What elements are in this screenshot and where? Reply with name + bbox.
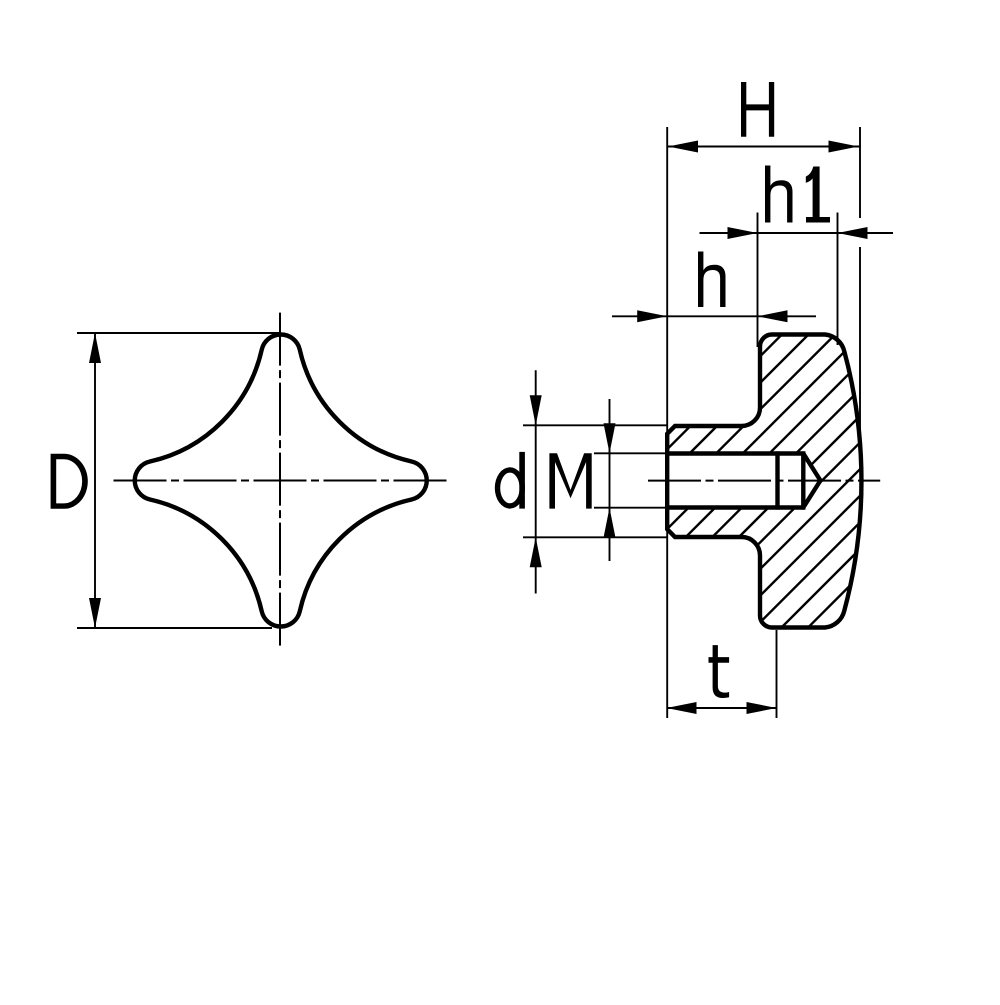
dimension H line with arrows bbox=[667, 141, 860, 153]
label H bbox=[741, 82, 774, 137]
dimension M extension line top bbox=[594, 452, 667, 454]
thread depth line bbox=[775, 451, 779, 509]
dimension d extension line top bbox=[523, 424, 667, 426]
dimension h1 line with outside arrows bbox=[700, 227, 894, 239]
dimension h line with outside arrows bbox=[612, 310, 816, 322]
dimension H right extension line bbox=[859, 127, 861, 445]
dimension D line with arrows bbox=[89, 333, 101, 628]
dimension t right extension line bbox=[776, 630, 778, 718]
section hatching bbox=[67, 320, 1000, 650]
cross knob front outline bbox=[135, 335, 427, 627]
knob section outline bbox=[667, 335, 861, 628]
dimension M line with outside arrows bbox=[604, 399, 616, 561]
side view centerline bbox=[648, 480, 880, 482]
label h1 bbox=[765, 166, 830, 223]
dimension H left extension line bbox=[666, 127, 668, 718]
dimension d line with outside arrows bbox=[530, 370, 542, 593]
dimension t line with arrows bbox=[667, 702, 777, 714]
dimension h1 right extension line bbox=[837, 213, 839, 346]
label D bbox=[51, 454, 88, 509]
drill depth line bbox=[801, 451, 805, 509]
label t bbox=[709, 645, 730, 698]
label M bbox=[549, 453, 591, 508]
front view centerline vertical bbox=[279, 313, 281, 648]
front view centerline horizontal bbox=[114, 480, 450, 482]
dimension D extension line bottom bbox=[77, 627, 272, 629]
label h bbox=[698, 252, 726, 308]
dimension M extension line bottom bbox=[594, 507, 667, 509]
tapped hole outline bbox=[665, 454, 820, 508]
dimension h1 left extension line bbox=[757, 213, 759, 348]
label d bbox=[495, 452, 525, 509]
dimension d extension line bottom bbox=[523, 536, 667, 538]
dimension D extension line top bbox=[77, 332, 279, 334]
